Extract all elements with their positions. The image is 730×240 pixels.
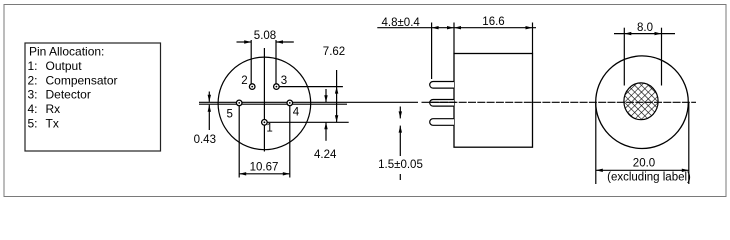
svg-text:20.0: 20.0 [633,158,655,170]
svg-text:5.08: 5.08 [254,30,276,42]
svg-text:4.8±0.4: 4.8±0.4 [382,17,421,29]
svg-text:16.6: 16.6 [482,16,504,28]
svg-text:5: 5 [227,109,233,121]
svg-text:2:: 2: [28,73,38,87]
svg-text:Detector: Detector [46,88,91,102]
svg-text:Compensator: Compensator [46,73,118,87]
svg-text:Tx: Tx [46,116,59,130]
svg-text:Pin Allocation:: Pin Allocation: [29,45,104,59]
svg-text:5:: 5: [28,116,38,130]
svg-text:(excluding label): (excluding label) [607,172,691,184]
svg-text:1: 1 [266,122,272,134]
svg-text:Rx: Rx [46,102,61,116]
svg-text:3:: 3: [28,88,38,102]
svg-text:2: 2 [241,75,247,87]
svg-text:4: 4 [293,107,300,119]
svg-text:10.67: 10.67 [250,161,279,173]
svg-text:7.62: 7.62 [323,46,345,58]
svg-text:4.24: 4.24 [314,149,337,161]
svg-text:Output: Output [46,59,83,73]
svg-text:8.0: 8.0 [637,22,653,34]
svg-text:1.5±0.05: 1.5±0.05 [378,159,423,171]
svg-text:4:: 4: [28,102,38,116]
svg-text:3: 3 [281,75,287,87]
svg-text:1:: 1: [28,59,38,73]
svg-text:0.43: 0.43 [194,134,216,146]
